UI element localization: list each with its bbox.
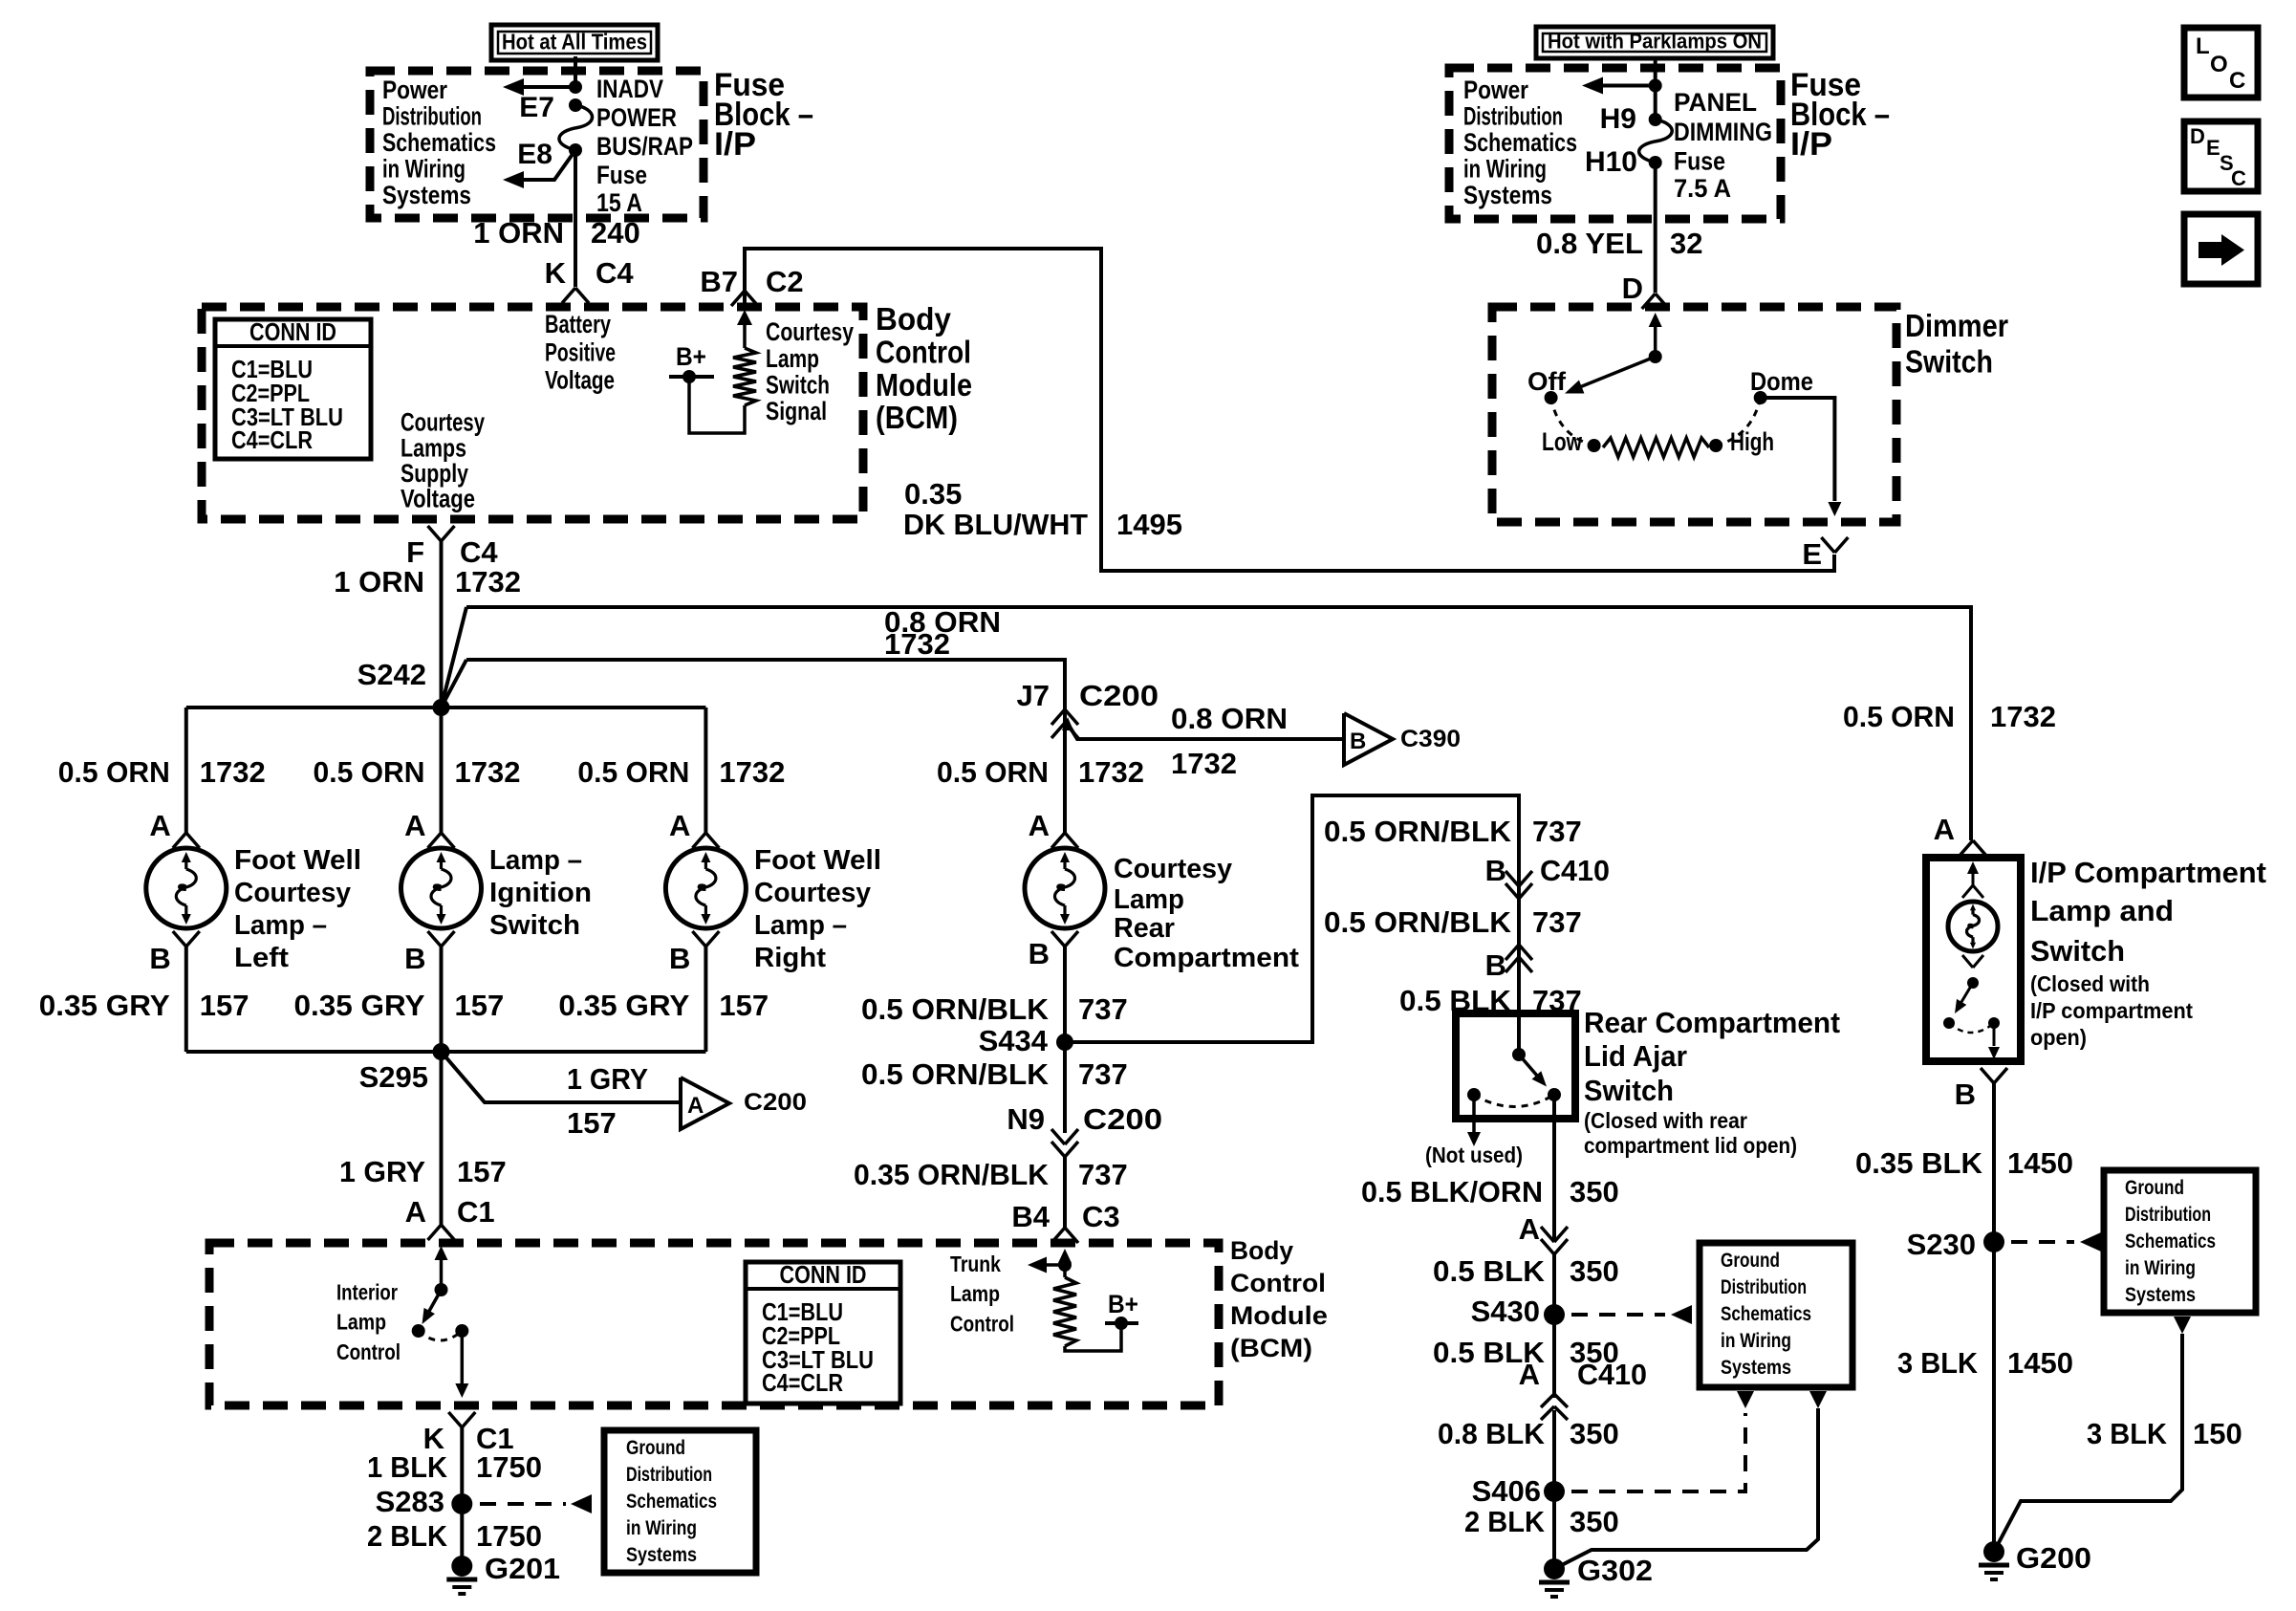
svg-text:Hot with Parklamps ON: Hot with Parklamps ON	[1548, 30, 1762, 54]
pin B of I/P lamp	[1955, 1068, 2007, 1111]
module: Dimmer Switch dashed box	[1492, 307, 1896, 522]
pin H9	[1600, 103, 1662, 135]
wire: 0.35 BLK to S230	[1992, 1083, 1996, 1242]
ground G201	[446, 1552, 560, 1594]
svg-text:S242: S242	[357, 658, 426, 691]
svg-text:PANEL: PANEL	[1674, 88, 1757, 117]
ref: S283 to ground distribution (dashed arrow)	[480, 1494, 592, 1513]
svg-text:0.35 BLK: 0.35 BLK	[1855, 1146, 1983, 1180]
label: 0.5 ORN 1732 (I/P lamp feed)	[1843, 700, 2056, 733]
svg-text:Voltage: Voltage	[401, 485, 475, 513]
svg-text:G200: G200	[2016, 1541, 2091, 1575]
wire: 0.5 ORN 1732 long run to I/P compartment lamp	[466, 607, 1971, 840]
svg-text:Lamps: Lamps	[401, 434, 466, 463]
wire: 1 BLK 1750 to S283	[460, 1427, 464, 1504]
svg-text:B: B	[1485, 948, 1506, 982]
svg-text:INADV: INADV	[596, 75, 663, 103]
lamp: Foot Well Courtesy Lamp - Right	[665, 848, 746, 928]
wire: 1 GRY 157 S295 to BCM A/C1	[440, 1052, 444, 1225]
svg-text:0.5 ORN: 0.5 ORN	[577, 755, 689, 789]
wire: 2 BLK to G302	[1552, 1491, 1556, 1569]
switch: interior lamp control (inside BCM)	[412, 1246, 469, 1398]
svg-text:15 A: 15 A	[596, 188, 642, 217]
svg-text:B+: B+	[1108, 1290, 1138, 1318]
svg-text:1732: 1732	[719, 755, 785, 789]
pin A of I/P lamp	[1934, 813, 1986, 856]
ref arrow into ground box (right leg)	[1809, 1391, 1827, 1408]
svg-text:S295: S295	[359, 1060, 428, 1094]
label: INADV POWER BUS/RAP Fuse 15 A	[596, 75, 693, 217]
svg-text:0.5 ORN: 0.5 ORN	[314, 755, 425, 789]
svg-text:Fuse: Fuse	[1674, 147, 1725, 176]
svg-text:BUS/RAP: BUS/RAP	[596, 132, 693, 161]
svg-text:Systems: Systems	[2125, 1284, 2196, 1306]
arrow: fuse block feed E7 side	[503, 78, 582, 96]
svg-text:1 BLK: 1 BLK	[367, 1450, 448, 1484]
ref: S230 to ground distribution (dashed arrow)	[2011, 1232, 2101, 1252]
wire: 1 ORN 1732 BCM F to S242	[440, 541, 444, 708]
svg-text:0.35: 0.35	[904, 477, 962, 511]
splice S430	[1471, 1295, 1565, 1328]
svg-text:B: B	[404, 942, 425, 975]
svg-text:Courtesy: Courtesy	[1114, 854, 1232, 884]
svg-text:E: E	[1802, 537, 1822, 571]
switch element: rear lid ajar blade	[1467, 1013, 1561, 1107]
svg-text:Module: Module	[1230, 1301, 1328, 1330]
pin B of rear courtesy lamp	[1029, 931, 1078, 970]
svg-text:C390: C390	[1400, 726, 1461, 752]
svg-text:157: 157	[455, 989, 505, 1022]
note: Power Distribution Schematics in Wiring Systems (right fuse block)	[1463, 76, 1577, 209]
wire: 3 BLK 1450 to G200	[1992, 1242, 1996, 1552]
svg-text:Compartment: Compartment	[1114, 943, 1299, 973]
icon: DESC box	[2184, 121, 2258, 191]
svg-text:A: A	[405, 1195, 426, 1229]
svg-text:737: 737	[1532, 815, 1582, 848]
pin E8	[517, 139, 582, 170]
svg-text:F: F	[406, 535, 424, 569]
svg-text:Switch: Switch	[1584, 1074, 1674, 1107]
svg-text:Dome: Dome	[1750, 367, 1813, 396]
svg-text:C4=CLR: C4=CLR	[231, 425, 313, 454]
svg-text:A: A	[149, 809, 170, 842]
svg-text:Lamp: Lamp	[1114, 884, 1184, 915]
wire: lamp feed down (left)	[184, 708, 188, 833]
svg-text:Module: Module	[876, 367, 972, 403]
table: CONN ID (bottom BCM)	[746, 1260, 900, 1404]
svg-text:Systems: Systems	[1721, 1357, 1791, 1379]
wire: 0.5 ORN down to rear courtesy lamp	[1063, 709, 1067, 833]
pin H10	[1585, 146, 1662, 178]
svg-text:Ignition: Ignition	[489, 878, 592, 908]
dashed arc Off to Low	[1551, 398, 1594, 446]
label: Interior Lamp Control	[336, 1280, 401, 1364]
switch box: I/P Compartment Lamp and Switch	[1926, 858, 2021, 1061]
svg-text:Control: Control	[1230, 1269, 1326, 1297]
svg-text:B: B	[1485, 854, 1506, 887]
svg-text:A: A	[1029, 809, 1050, 842]
svg-text:K: K	[545, 256, 567, 290]
svg-text:157: 157	[719, 989, 769, 1022]
label: 1 ORN 240	[473, 216, 639, 250]
svg-text:Control: Control	[950, 1312, 1014, 1337]
svg-text:Lamp –: Lamp –	[234, 910, 327, 941]
svg-text:Systems: Systems	[382, 181, 471, 209]
wire: 0.35 DK BLU/WHT 1495 BCM B7 to dimmer E	[745, 249, 1834, 571]
svg-text:High: High	[1730, 427, 1774, 456]
svg-text:0.35 ORN/BLK: 0.35 ORN/BLK	[854, 1158, 1050, 1191]
label: Courtesy Lamps Supply Voltage	[401, 408, 485, 513]
pin B of lamp (left)	[149, 931, 199, 975]
svg-text:(BCM): (BCM)	[1230, 1334, 1312, 1362]
svg-text:G201: G201	[485, 1552, 560, 1585]
label: Courtesy Lamp Switch Signal	[766, 317, 854, 425]
svg-text:open): open)	[2030, 1025, 2087, 1050]
svg-text:in Wiring: in Wiring	[382, 155, 466, 184]
splice S406	[1472, 1474, 1565, 1508]
lamp: Lamp - Ignition Switch	[401, 848, 482, 928]
svg-text:157: 157	[567, 1106, 617, 1140]
svg-text:POWER: POWER	[596, 103, 677, 132]
svg-text:737: 737	[1078, 992, 1128, 1026]
svg-text:C410: C410	[1577, 1358, 1647, 1391]
svg-text:0.8 BLK: 0.8 BLK	[1438, 1417, 1546, 1450]
svg-text:Lamp –: Lamp –	[754, 910, 847, 941]
svg-text:1750: 1750	[476, 1519, 542, 1553]
contact High	[1709, 427, 1774, 456]
svg-text:1 GRY: 1 GRY	[567, 1062, 648, 1096]
svg-text:1450: 1450	[2007, 1346, 2073, 1380]
label: (Not used)	[1425, 1143, 1523, 1167]
label: 0.5 BLK 350 (below S430)	[1433, 1336, 1619, 1369]
svg-text:C200: C200	[744, 1089, 807, 1116]
label: 0.5 ORN/BLK 737 (below C410)	[1324, 905, 1582, 939]
label: 0.35 GRY 157 (ign)	[294, 989, 505, 1022]
wire: parklamp feed into fuse block	[1654, 58, 1657, 120]
box: Ground Distribution Schematics in Wiring Systems (left)	[604, 1430, 756, 1573]
svg-text:in Wiring: in Wiring	[626, 1517, 697, 1539]
svg-text:J7: J7	[1017, 679, 1050, 712]
svg-text:Ground: Ground	[2125, 1177, 2184, 1199]
wire: lamp supply rail from S242	[186, 706, 706, 709]
svg-text:0.5 ORN: 0.5 ORN	[1843, 700, 1955, 733]
splice S242	[357, 658, 450, 716]
svg-text:A: A	[1934, 813, 1955, 846]
svg-text:1 ORN: 1 ORN	[334, 565, 424, 599]
svg-text:Lamp: Lamp	[766, 344, 819, 373]
svg-text:Distribution: Distribution	[382, 102, 482, 131]
svg-text:Rear Compartment: Rear Compartment	[1584, 1006, 1840, 1039]
svg-text:G302: G302	[1577, 1554, 1653, 1587]
svg-text:A: A	[1519, 1358, 1540, 1391]
svg-text:DIMMING: DIMMING	[1674, 118, 1772, 146]
icon: arrow box	[2184, 214, 2258, 284]
svg-text:350: 350	[1570, 1254, 1619, 1288]
svg-text:150: 150	[2193, 1417, 2242, 1450]
svg-text:DK BLU/WHT: DK BLU/WHT	[903, 508, 1088, 541]
pin E7	[519, 92, 582, 123]
wire: 0.8 ORN 1732 run to J7 C200	[466, 660, 1065, 709]
svg-text:B: B	[1955, 1078, 1976, 1111]
svg-text:B7: B7	[700, 265, 738, 298]
svg-text:Schematics: Schematics	[1721, 1303, 1811, 1325]
splice S295	[359, 1043, 450, 1094]
svg-text:Signal: Signal	[766, 397, 827, 425]
svg-text:0.5 ORN/BLK: 0.5 ORN/BLK	[861, 992, 1050, 1026]
label: Lamp - Ignition Switch	[489, 845, 592, 941]
contact Off	[1527, 367, 1567, 404]
label: 0.5 ORN/BLK 737 (to C410)	[1324, 815, 1582, 848]
svg-text:737: 737	[1532, 905, 1582, 939]
header box: Hot at All Times	[491, 25, 658, 60]
node B+ (battery positive) stub	[669, 342, 714, 383]
pin B of rear lid ajar switch (in-line pair)	[1485, 945, 1532, 982]
svg-text:C1: C1	[457, 1195, 495, 1229]
svg-text:Switch: Switch	[1905, 344, 1993, 380]
wire: 0.5 BLK/ORN switch to A connector	[1552, 1095, 1556, 1242]
svg-text:Body: Body	[1230, 1236, 1293, 1265]
wire: lamp ground side down (right)	[704, 947, 707, 1052]
svg-text:Ground: Ground	[1721, 1250, 1780, 1272]
switch box: Rear Compartment Lid Ajar Switch	[1456, 1013, 1575, 1119]
pin A of lamp (left)	[149, 809, 199, 848]
label: 0.8 BLK 350	[1438, 1417, 1619, 1450]
svg-text:0.5 BLK: 0.5 BLK	[1433, 1254, 1546, 1288]
wire: G302 to ground distribution box	[1554, 1408, 1818, 1569]
svg-text:B: B	[669, 942, 690, 975]
contact Low	[1542, 427, 1601, 456]
lamp: I/P compartment lamp element	[1948, 861, 1998, 968]
label: 0.8 ORN 1732 (S242 to C200)	[884, 605, 1001, 661]
pin A (in-line, down)	[1519, 1212, 1568, 1254]
svg-text:Dimmer: Dimmer	[1905, 308, 2008, 343]
label: 0.5 BLK/ORN 350	[1361, 1175, 1619, 1208]
pin B7 connector C2	[700, 265, 803, 306]
svg-text:Distribution: Distribution	[1721, 1276, 1807, 1298]
svg-text:Schematics: Schematics	[382, 128, 496, 157]
ref: S406 to ground distribution (dashed line)	[1571, 1413, 1745, 1491]
svg-text:CONN ID: CONN ID	[780, 1260, 867, 1289]
svg-text:Courtesy: Courtesy	[754, 878, 871, 908]
svg-text:C: C	[2231, 166, 2246, 190]
svg-text:C3: C3	[1082, 1200, 1120, 1233]
pin K connector C4	[545, 256, 635, 303]
svg-text:Supply: Supply	[401, 459, 468, 488]
svg-text:Switch: Switch	[2030, 934, 2125, 968]
svg-text:Distribution: Distribution	[626, 1464, 712, 1486]
label: 0.35 GRY 157 (right)	[558, 989, 769, 1022]
svg-text:(Closed with rear: (Closed with rear	[1584, 1108, 1747, 1133]
svg-text:B+: B+	[676, 342, 706, 371]
svg-text:1732: 1732	[1990, 700, 2056, 733]
svg-text:Control: Control	[876, 335, 971, 370]
resistor: trunk lamp control pull-up	[1053, 1277, 1076, 1346]
svg-text:0.35 GRY: 0.35 GRY	[294, 989, 425, 1022]
svg-text:Left: Left	[234, 943, 289, 973]
label: 3 BLK 150	[2087, 1417, 2242, 1450]
switch element: dimmer selector blade	[1565, 313, 1662, 394]
svg-text:1 GRY: 1 GRY	[339, 1155, 425, 1188]
svg-text:Schematics: Schematics	[1463, 128, 1577, 157]
svg-text:Courtesy: Courtesy	[401, 408, 485, 437]
ground G302	[1539, 1554, 1653, 1597]
wire: 0.8 BLK to S406	[1552, 1410, 1556, 1491]
svg-text:1732: 1732	[1171, 747, 1237, 780]
fuse block I/P (left) dashed box	[370, 71, 704, 218]
label: Battery Positive Voltage	[545, 310, 616, 395]
svg-text:3 BLK: 3 BLK	[1897, 1346, 1979, 1380]
label: 1 BLK 1750	[367, 1450, 542, 1484]
svg-text:A: A	[669, 809, 690, 842]
svg-text:0.5 ORN/BLK: 0.5 ORN/BLK	[1324, 815, 1512, 848]
lamp: Courtesy Lamp Rear Compartment	[1025, 848, 1105, 928]
svg-text:Courtesy: Courtesy	[766, 317, 854, 346]
svg-text:I/P: I/P	[1790, 126, 1832, 163]
label: 0.8 ORN 1732 (C390 branch)	[1171, 702, 1288, 780]
svg-text:Ground: Ground	[626, 1437, 685, 1459]
pin B of lamp (right)	[669, 931, 719, 975]
svg-text:A: A	[687, 1093, 704, 1119]
svg-text:2 BLK: 2 BLK	[367, 1519, 448, 1553]
label: 0.5 ORN 1732 (right)	[577, 755, 785, 789]
svg-text:E7: E7	[519, 92, 554, 123]
svg-text:1732: 1732	[455, 565, 521, 599]
svg-text:0.5 ORN: 0.5 ORN	[937, 755, 1049, 789]
label: Foot Well Courtesy Lamp - Right	[754, 845, 881, 973]
svg-text:D: D	[1622, 272, 1643, 305]
svg-text:in Wiring: in Wiring	[2125, 1257, 2196, 1279]
svg-text:157: 157	[457, 1155, 507, 1188]
wire: lamp return rail to S295	[186, 1050, 706, 1054]
svg-text:E: E	[2206, 136, 2220, 160]
svg-text:Foot Well: Foot Well	[754, 845, 881, 876]
wire: lamp ground side down (left)	[184, 947, 188, 1052]
splice S283	[376, 1485, 473, 1518]
svg-text:S406: S406	[1472, 1474, 1541, 1508]
arrow: fuse output E8 side	[503, 150, 575, 188]
svg-text:C4: C4	[596, 256, 634, 290]
svg-text:Distribution: Distribution	[1463, 102, 1563, 131]
svg-text:Control: Control	[336, 1339, 401, 1364]
label: I/P Compartment Lamp and Switch	[2030, 856, 2266, 1050]
svg-text:1732: 1732	[1078, 755, 1144, 789]
svg-text:3 BLK: 3 BLK	[2087, 1417, 2168, 1450]
wire: 3 BLK 150 ground box to G200	[1994, 1334, 2182, 1552]
svg-text:1732: 1732	[455, 755, 521, 789]
svg-text:240: 240	[591, 216, 640, 250]
svg-text:B: B	[1350, 729, 1366, 754]
pin F connector C4 (BCM bottom)	[406, 526, 498, 569]
svg-text:I/P compartment: I/P compartment	[2030, 998, 2193, 1023]
wire: 0.35 ORN/BLK to BCM B4	[1063, 1157, 1067, 1229]
svg-text:H9: H9	[1600, 103, 1636, 135]
label: 0.5 BLK 737	[1399, 984, 1582, 1017]
svg-text:D: D	[2190, 124, 2205, 148]
svg-text:0.8 ORN: 0.8 ORN	[1171, 702, 1288, 735]
label: PANEL DIMMING Fuse 7.5 A	[1674, 88, 1772, 203]
connector C200 pin N9 (in-line)	[1007, 1102, 1162, 1157]
svg-text:Schematics: Schematics	[626, 1491, 717, 1513]
BCM input arrow at B7	[737, 310, 752, 348]
svg-text:Foot Well: Foot Well	[234, 845, 361, 876]
svg-text:S430: S430	[1471, 1295, 1540, 1328]
svg-text:1495: 1495	[1116, 508, 1182, 541]
svg-text:Hot at All Times: Hot at All Times	[502, 30, 647, 54]
pin K connector C1 (BCM bottom to ground)	[423, 1412, 514, 1455]
svg-text:0.5 ORN/BLK: 0.5 ORN/BLK	[861, 1057, 1050, 1091]
svg-text:Interior: Interior	[336, 1280, 398, 1305]
svg-text:in Wiring: in Wiring	[1463, 155, 1547, 184]
label: Rear Compartment Lid Ajar Switch	[1584, 1006, 1840, 1158]
wire: 0.5 ORN/BLK S434 to N9	[1063, 1042, 1067, 1133]
label: 0.5 BLK 350 (above S430)	[1433, 1254, 1619, 1288]
wire: lamp feed down (right)	[704, 708, 707, 833]
resistor: dimmer rheostat	[1603, 438, 1709, 457]
svg-text:0.5 ORN/BLK: 0.5 ORN/BLK	[1324, 905, 1512, 939]
svg-text:350: 350	[1570, 1175, 1619, 1208]
label: Foot Well Courtesy Lamp - Left	[234, 845, 361, 973]
label: 0.5 ORN 1732 (left)	[58, 755, 266, 789]
label: 0.35 DK BLU/WHT 1495	[903, 477, 1182, 541]
wire: Dome to E terminal	[1761, 398, 1842, 516]
connector C410 pin A (in-line)	[1519, 1358, 1647, 1420]
ref: S430 to ground distribution (dashed arrow)	[1571, 1305, 1692, 1324]
svg-text:E8: E8	[517, 139, 552, 170]
wire: 0.5 BLK S430 to C410 A	[1552, 1315, 1556, 1398]
arrow: fuse block feed (parklamps)	[1582, 77, 1662, 95]
svg-text:S434: S434	[979, 1024, 1049, 1057]
svg-text:Lamp –: Lamp –	[489, 845, 582, 876]
wire: 1 ORN 240 from fuse to BCM K/C4	[574, 150, 577, 287]
svg-text:157: 157	[200, 989, 249, 1022]
label: 1 GRY 157 (branch)	[567, 1062, 648, 1140]
svg-text:0.5 ORN: 0.5 ORN	[58, 755, 170, 789]
label: Trunk Lamp Control	[950, 1252, 1014, 1337]
svg-text:0.5 BLK/ORN: 0.5 BLK/ORN	[1361, 1175, 1543, 1208]
wire: lamp ground side down (ign)	[440, 947, 444, 1052]
svg-text:Distribution: Distribution	[2125, 1204, 2211, 1226]
svg-text:Power: Power	[1463, 76, 1528, 104]
pin A connector C1 (BCM interior lamp input)	[405, 1195, 495, 1240]
svg-text:I/P Compartment: I/P Compartment	[2030, 856, 2266, 889]
ground G200	[1979, 1541, 2091, 1579]
wire: not-used terminal stub	[1467, 1095, 1481, 1146]
label: Fuse Block - I/P (right)	[1790, 67, 1890, 163]
svg-text:C: C	[2229, 68, 2245, 94]
svg-text:Trunk: Trunk	[950, 1252, 1001, 1276]
svg-text:I/P: I/P	[714, 126, 756, 163]
label: 0.5 ORN 1732 (ign)	[314, 755, 521, 789]
svg-text:Fuse: Fuse	[596, 161, 647, 189]
svg-text:1450: 1450	[2007, 1146, 2073, 1180]
svg-text:0.35 GRY: 0.35 GRY	[558, 989, 689, 1022]
svg-text:737: 737	[1078, 1158, 1128, 1191]
label: 2 BLK 350	[1464, 1505, 1619, 1538]
connector C390 terminal B (off-page triangle)	[1344, 713, 1461, 765]
icon: LOC box	[2184, 28, 2258, 98]
svg-text:Lamp: Lamp	[950, 1281, 1000, 1306]
svg-text:1 ORN: 1 ORN	[473, 216, 564, 250]
pin A of lamp (ign)	[404, 809, 454, 848]
svg-text:Systems: Systems	[1463, 181, 1552, 209]
svg-text:C200: C200	[1079, 679, 1159, 712]
wire: resistor to B+ node	[689, 381, 745, 433]
label: 1 GRY 157 (main)	[339, 1155, 507, 1188]
splice S434	[979, 1024, 1073, 1057]
wire: battery feed into fuse block	[574, 56, 577, 88]
connector C200 terminal A (off-page triangle)	[681, 1078, 807, 1129]
label: Courtesy Lamp Rear Compartment	[1114, 854, 1299, 973]
